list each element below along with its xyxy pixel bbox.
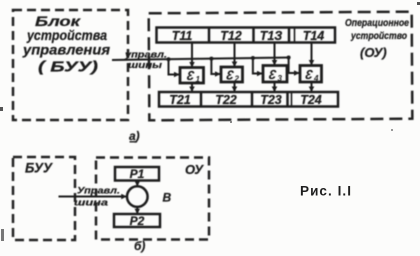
svg-text:а): а)	[129, 129, 140, 143]
svg-text:Т23: Т23	[260, 93, 282, 107]
svg-text:Управл.: Управл.	[77, 186, 120, 196]
svg-text:управл.: управл.	[124, 50, 167, 60]
svg-text:Рис. I.I: Рис. I.I	[300, 184, 351, 199]
svg-text:БУУ: БУУ	[25, 161, 53, 176]
svg-text:3: 3	[278, 74, 283, 83]
svg-text:Т21: Т21	[169, 93, 191, 107]
svg-text:устройство: устройство	[350, 31, 407, 42]
svg-text:1: 1	[196, 75, 201, 84]
svg-text:В: В	[163, 191, 172, 205]
svg-text:Т22: Т22	[215, 93, 237, 107]
svg-text:Т11: Т11	[172, 29, 193, 43]
svg-text:4: 4	[313, 74, 319, 83]
svg-text:управления: управления	[22, 42, 110, 58]
svg-text:Р1: Р1	[130, 167, 145, 181]
svg-text:Операционное: Операционное	[345, 18, 409, 29]
svg-text:шина: шина	[74, 198, 108, 208]
svg-text:Т24: Т24	[300, 93, 322, 107]
svg-text:Т14: Т14	[303, 29, 325, 43]
svg-text:б): б)	[134, 239, 145, 253]
svg-text:3: 3	[185, 68, 196, 83]
svg-text:Р2: Р2	[130, 214, 145, 228]
svg-text:Т12: Т12	[220, 29, 242, 43]
svg-text:( БУУ): ( БУУ)	[38, 59, 98, 76]
svg-text:Т1З: Т1З	[260, 29, 283, 43]
svg-text:3: 3	[304, 67, 315, 82]
svg-text:(ОУ): (ОУ)	[360, 45, 387, 60]
svg-text:шины: шины	[128, 60, 162, 70]
svg-text:3: 3	[267, 67, 278, 82]
svg-text:ОУ: ОУ	[185, 162, 204, 177]
